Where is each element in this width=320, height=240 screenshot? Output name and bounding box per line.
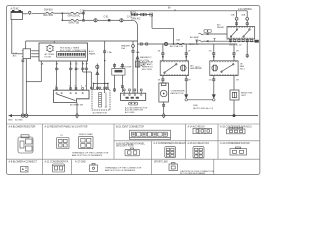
- svg-text:1G: 1G: [209, 51, 212, 53]
- svg-text:SPORT LINE: SPORT LINE: [154, 161, 168, 163]
- svg-text:BLK W-B: BLK W-B: [44, 15, 54, 17]
- svg-text:A-8 BLOWER # CONNECT: A-8 BLOWER # CONNECT: [9, 160, 38, 163]
- svg-text:AT OPEN: AT OPEN: [45, 53, 55, 56]
- svg-text:FAN MOTOR: FAN MOTOR: [171, 92, 184, 95]
- svg-text:C2: C2: [60, 135, 64, 137]
- svg-text:GRN 7.5B: GRN 7.5B: [69, 23, 80, 25]
- svg-text:TERMINALS OF THIS CONNECTOR: TERMINALS OF THIS CONNECTOR: [105, 167, 142, 170]
- svg-text:WHITE GRAY: WHITE GRAY: [79, 133, 93, 136]
- svg-text:A-10: A-10: [89, 50, 94, 53]
- svg-text:C-01: C-01: [104, 16, 110, 18]
- svg-text:A/C: A/C: [190, 65, 194, 68]
- svg-text:UNIT: UNIT: [241, 95, 247, 97]
- svg-text:1E: 1E: [82, 64, 85, 66]
- svg-text:RELAY: RELAY: [217, 26, 225, 29]
- svg-text:SWITCH: SWITCH: [190, 44, 199, 46]
- svg-text:A-10 GND: A-10 GND: [125, 111, 135, 114]
- svg-text:C-01: C-01: [80, 10, 86, 12]
- svg-text:30A: 30A: [241, 13, 245, 16]
- svg-text:A-11 CONDENSER FA: A-11 CONDENSER FA: [45, 160, 69, 163]
- svg-text:1H: 1H: [236, 51, 239, 53]
- svg-text:(A/C AMP): (A/C AMP): [142, 63, 153, 66]
- svg-text:1F: 1F: [188, 51, 191, 53]
- svg-text:1E: 1E: [158, 51, 161, 53]
- svg-text:2-01 WIRING: 2-01 WIRING: [238, 9, 252, 11]
- svg-text:A/C: A/C: [13, 54, 17, 57]
- svg-text:GND: GND: [8, 120, 13, 122]
- svg-text:ARE IN STYLE OF NUMBERS: ARE IN STYLE OF NUMBERS: [72, 154, 103, 157]
- svg-text:B-22 JOINT CONNECTOR: B-22 JOINT CONNECTOR: [60, 50, 87, 52]
- svg-text:TERMINALS OF THIS CONNECTOR: TERMINALS OF THIS CONNECTOR: [72, 152, 109, 155]
- svg-text:A-10 RESISTANT PANEL W/ LIGHT: A-10 RESISTANT PANEL W/ LIGHT FOR: [45, 125, 88, 128]
- svg-text:4: 4: [78, 69, 80, 71]
- svg-text:1E: 1E: [158, 79, 161, 81]
- svg-text:ARE IN STYLE OF NUMBERS: ARE IN STYLE OF NUMBERS: [105, 169, 136, 172]
- svg-text:A/C RELAY: A/C RELAY: [142, 60, 154, 63]
- svg-text:BLOWER SW: BLOWER SW: [70, 105, 83, 107]
- svg-text:MAGNETIC: MAGNETIC: [140, 56, 152, 59]
- svg-text:B4 GND: B4 GND: [15, 120, 23, 122]
- svg-text:15A: 15A: [121, 47, 125, 50]
- svg-text:PANEL: PANEL: [89, 52, 97, 55]
- svg-text:IG SW: IG SW: [45, 56, 52, 58]
- svg-text:A/C AMP: A/C AMP: [190, 36, 199, 39]
- svg-text:C-01: C-01: [131, 11, 137, 13]
- svg-text:GRN A/C: GRN A/C: [131, 17, 141, 20]
- svg-text:(BODY GND No.1 2): (BODY GND No.1 2): [193, 108, 213, 110]
- svg-text:A-14 A/C RELAY: A-14 A/C RELAY: [188, 125, 206, 128]
- svg-text:(W/ LIGHT FOR): (W/ LIGHT FOR): [116, 146, 134, 148]
- svg-text:1F: 1F: [86, 64, 89, 66]
- svg-text:1D: 1D: [75, 64, 78, 66]
- svg-text:A-6 BLOWER RESISTOR: A-6 BLOWER RESISTOR: [9, 125, 36, 128]
- svg-text:15A: 15A: [176, 39, 180, 42]
- svg-text:C-3 CONDENSER FAN RELAY: C-3 CONDENSER FAN RELAY: [154, 142, 187, 145]
- svg-text:4: 4: [81, 86, 83, 88]
- svg-text:30A BLK: 30A BLK: [44, 9, 53, 12]
- svg-text:1C: 1C: [70, 64, 73, 66]
- svg-text:SECTION: SECTION: [142, 69, 152, 71]
- svg-text:RESISTOR: RESISTOR: [120, 66, 132, 68]
- svg-text:1G: 1G: [209, 79, 212, 81]
- svg-text:HEATER: HEATER: [121, 45, 130, 48]
- svg-text:1B: 1B: [56, 64, 59, 66]
- svg-text:NO.2: NO.2: [240, 69, 246, 71]
- svg-text:15A: 15A: [231, 13, 235, 16]
- svg-text:NO.1: NO.1: [196, 66, 202, 68]
- svg-text:IN COLUMN IN NUMBER: IN COLUMN IN NUMBER: [180, 173, 206, 175]
- svg-text:B+: B+: [168, 7, 172, 9]
- svg-text:7.5A: 7.5A: [107, 51, 112, 54]
- svg-text:15A: 15A: [136, 51, 140, 54]
- svg-text:C-11 CONDENSER FAN NO: C-11 CONDENSER FAN NO: [220, 142, 250, 145]
- svg-text:A-6 RESISTOR: A-6 RESISTOR: [93, 111, 108, 114]
- svg-text:B-22 JOINT CONNECTOR: B-22 JOINT CONNECTOR: [116, 126, 144, 128]
- svg-text:1H: 1H: [236, 79, 239, 81]
- svg-text:A/C 15A 2-16: A/C 15A 2-16: [170, 45, 184, 48]
- svg-text:A-16 A/C RELAY NO: A-16 A/C RELAY NO: [188, 142, 210, 145]
- svg-text:A-75 AC: A-75 AC: [11, 8, 20, 11]
- svg-text:2: 2: [58, 69, 60, 71]
- svg-text:1F: 1F: [188, 79, 191, 81]
- svg-text:FAN: FAN: [240, 65, 245, 68]
- svg-text:A-17 GND: A-17 GND: [75, 160, 86, 163]
- svg-text:A-15 CONDENSER FAN NO.2: A-15 CONDENSER FAN NO.2: [220, 125, 252, 128]
- svg-text:GRN 15 A/C: GRN 15 A/C: [68, 15, 81, 18]
- svg-text:3: 3: [72, 69, 74, 71]
